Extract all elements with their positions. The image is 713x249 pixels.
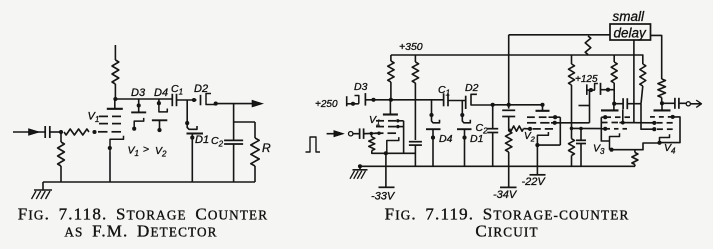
svg-text:D2: D2 (465, 82, 479, 94)
input: pulse symbol Fig 7.119 (306, 137, 321, 152)
wire: cap tap line to V3 grid bracket (570, 127, 602, 131)
label D4 Fig 7.118 (154, 87, 168, 99)
label D3 Fig 7.118 (131, 87, 146, 99)
label +350 (399, 41, 423, 53)
label +250 (315, 99, 338, 110)
wire: D1 branch from coupling wire Fig 7.118 (185, 100, 189, 125)
terminal: +125 supply bar (586, 84, 588, 95)
wire: V4 plate to output cap (662, 102, 675, 104)
capacitor: output coupling cap (675, 98, 679, 109)
terminal: input open circle Fig 7.119 (349, 132, 360, 136)
wire: V3 grid bracket to cathode (601, 117, 609, 141)
label V1 Fig 7.119 (369, 114, 380, 128)
tube V1 grids Fig 7.119 (375, 121, 396, 133)
capacitor C1 Fig 7.119 (444, 93, 448, 106)
svg-text:D1: D1 (195, 134, 209, 146)
wire: V3 grid2 line to V4 grid2 (619, 121, 656, 125)
wire: V4 grid node down to grid3 (641, 104, 656, 132)
node: V1 cathode dot Fig 7.118 (108, 146, 112, 150)
arrowhead: input arrow Fig 7.118 (29, 129, 40, 136)
wire: V2 cathode to -22V (536, 145, 538, 175)
wire: D3 plate to top wire A (365, 98, 443, 102)
node: V3 plate node dot (612, 102, 616, 106)
label C2 Fig 7.118 (211, 135, 224, 149)
label -34V (493, 189, 518, 201)
node: output junction dot Fig 7.118 (214, 102, 218, 106)
resistor: series grid resistor Fig 7.118 (64, 129, 89, 135)
tube V1 grids Fig 7.118 (98, 116, 121, 131)
node: V4 cathode dot (657, 141, 661, 145)
node: plate supply junction Fig 7.118 (113, 97, 117, 101)
label D1 Fig 7.118 (195, 134, 209, 146)
arrowhead: output arrow open (691, 100, 702, 107)
label -22V (522, 176, 547, 188)
label +125 (575, 74, 598, 85)
diode D2 Fig 7.118 (201, 94, 216, 106)
wire: plate line D2 to V2 (493, 104, 543, 106)
node: V1 cathode junction dot (384, 151, 388, 155)
diode D1 Fig 7.118 (187, 123, 204, 182)
svg-text:delay: delay (614, 26, 648, 41)
capacitor: input coupling cap Fig 7.118 (45, 126, 61, 138)
wire: V2 cathode to grid1 tie corner (537, 144, 560, 146)
svg-text:+350: +350 (399, 41, 423, 53)
node: V2 grid3 dot (528, 127, 532, 131)
diode D2 Fig 7.119 (466, 94, 493, 109)
label V4 (664, 142, 676, 156)
label D4 Fig 7.119 (439, 133, 453, 145)
label D2 Fig 7.118 (194, 83, 208, 95)
svg-text:AS F.M. DETECTOR: AS F.M. DETECTOR (64, 221, 217, 240)
capacitor C1 Fig 7.118 (172, 94, 176, 106)
resistor: bias divider upper Fig 7.119 (569, 55, 575, 128)
tube V2 plate (536, 105, 550, 111)
wire: cathode bus V3 to V4 (610, 143, 660, 150)
capacitor C2 Fig 7.119 (487, 105, 498, 167)
resistor: grid leak resistor Fig 7.119 (369, 132, 386, 154)
wire: cathode line to screen bypass (386, 152, 416, 154)
svg-text:D3: D3 (354, 81, 368, 93)
svg-text:FIG. 7.119. STORAGE-COUNTER: FIG. 7.119. STORAGE-COUNTER (385, 204, 630, 223)
tube V4 grids (650, 117, 673, 129)
ground: Fig 7.118 (32, 182, 53, 199)
resistor: V4 grid resistor from rail (640, 55, 646, 104)
tube V1 plate Fig 7.118 (107, 99, 123, 109)
svg-text:D4: D4 (439, 133, 453, 145)
wire: V4 grid1 to cathode tie (661, 117, 680, 143)
wire: C1 to D2 Fig 7.118 (177, 98, 197, 102)
caption Fig 7.118 line 2 (64, 221, 217, 240)
tube V1 plate Fig 7.119 (383, 100, 398, 115)
wire: V2 grid1 to divider (549, 115, 561, 145)
wire: delay box right output (651, 35, 662, 79)
node: V4 plate node dot (660, 101, 664, 105)
diode D4 Fig 7.119 (426, 100, 441, 167)
box: delay (610, 24, 651, 41)
wire: V3 plate to coupling cap (614, 103, 623, 105)
wire: cathode down to -33V (385, 153, 387, 187)
wire: +350 rail (391, 54, 644, 56)
node: V3 cathode dot (609, 148, 613, 152)
svg-text:small: small (613, 9, 646, 24)
label small (613, 9, 646, 24)
ground: Fig 7.119 (350, 166, 368, 179)
node: grid junction Fig 7.118 (59, 130, 63, 134)
capacitor: screen bypass cap Fig 7.119 (409, 142, 422, 167)
resistor: delay line dropping resistor (585, 36, 591, 55)
capacitor: cross-coupling cap V3-V4 (623, 98, 641, 109)
resistor R Fig 7.118 (251, 122, 259, 182)
svg-text:D4: D4 (154, 87, 168, 99)
wire: V1 screen grids to cathode line (398, 121, 404, 154)
svg-text:>: > (143, 144, 149, 156)
capacitor C2 Fig 7.118 (224, 122, 243, 182)
label V3 (593, 143, 605, 157)
node: V4 grid1 dot (671, 115, 675, 119)
wire: ground bus Fig 7.118 (43, 181, 255, 183)
diode D3 Fig 7.118 (131, 99, 146, 131)
node: V3 grid dots (603, 115, 607, 131)
node: C2 top dot Fig 7.119 (491, 103, 495, 107)
arrowhead: input arrow Fig 7.119 (334, 131, 344, 137)
label D3 Fig 7.119 (354, 81, 368, 93)
node: coupling cap top dot (507, 103, 511, 107)
label C1 Fig 7.119 (438, 84, 450, 98)
terminal: -34V supply bar (500, 186, 517, 188)
label V1 Fig 7.118 (88, 111, 100, 125)
diode D3 Fig 7.119 (347, 93, 366, 106)
resistor: V3 plate load (611, 55, 617, 104)
label -33V (371, 191, 396, 203)
wire: delay box output down to V3 grid2 line (633, 40, 635, 123)
wire: output to C2/R branch Fig 7.118 (234, 104, 255, 122)
resistor: plate load resistor Fig 7.118 (112, 45, 119, 99)
tube V1 cathode Fig 7.119 (387, 137, 399, 153)
resistor: bias divider lower Fig 7.119 (569, 128, 575, 166)
svg-text:-34V: -34V (493, 189, 518, 201)
tube V3 grids (601, 117, 630, 129)
terminal: -22V supply bar (530, 174, 546, 176)
resistor: divider to -34V (506, 129, 512, 188)
diode D4 Fig 7.118 (152, 99, 167, 132)
wire: V2 grid2 cross-coupling (551, 90, 590, 125)
svg-text:R: R (262, 141, 271, 155)
capacitor: grid coupling cap at V2 (502, 105, 515, 129)
tube V3 plate (601, 104, 619, 111)
tube V2 grids (527, 117, 553, 129)
caption Fig 7.118 line 1 (18, 204, 268, 223)
svg-text:-33V: -33V (371, 191, 396, 203)
wire: C1 to D2 Fig 7.119 (448, 100, 466, 102)
label V1 > V2 Fig 7.118 (128, 144, 168, 159)
wire: feedback riser to delay line (508, 35, 510, 105)
wire: cap left bar to V3 grid2 (621, 109, 625, 124)
resistor: common cathode resistor (632, 150, 638, 167)
node: V2 plate lead dot (540, 103, 544, 107)
wire: top bus Fig 7.118 (115, 98, 172, 100)
wire: input lead Fig 7.119 (327, 133, 337, 135)
capacitor: V3 grid coupling cap (576, 129, 586, 167)
caption Fig 7.119 line 2 (475, 221, 538, 240)
label C2 Fig 7.119 (476, 122, 489, 136)
label V2 (524, 131, 536, 144)
arrowhead: output arrow Fig 7.118 (252, 100, 263, 107)
tube V4 cathode (660, 134, 670, 143)
label D2 Fig 7.119 (465, 82, 479, 94)
svg-text:+250: +250 (315, 99, 338, 110)
node: V1 grid terminal dot Fig 7.118 (92, 130, 96, 134)
svg-text:D1: D1 (470, 133, 483, 145)
label R Fig 7.118 (262, 141, 271, 155)
resistor: input shunt resistor to ground Fig 7.118 (58, 132, 65, 182)
wire: output wire Fig 7.118 (216, 103, 253, 105)
tube V1 cathode Fig 7.118 (110, 136, 124, 182)
label C1 Fig 7.118 (171, 83, 183, 97)
resistor: V4 plate load (658, 79, 666, 103)
wire: delay line to box (509, 34, 610, 36)
capacitor: input coupling cap Fig 7.119 (360, 128, 379, 139)
svg-text:CIRCUIT: CIRCUIT (475, 221, 538, 240)
caption Fig 7.119 line 1 (385, 204, 630, 223)
diode D1 Fig 7.119 (457, 101, 472, 167)
resistor: V2 grid resistor horizontal (510, 126, 529, 131)
svg-text:-22V: -22V (522, 176, 547, 188)
resistor: screen divider R2 Fig 7.119 (412, 55, 418, 140)
node: V2 cathode dot (535, 143, 539, 147)
resistor: V1 plate load R1 Fig 7.119 (388, 55, 394, 100)
label D1 Fig 7.119 (470, 133, 483, 145)
tube V4 plate (654, 103, 671, 110)
node: V1 plate node dot (389, 98, 393, 102)
node: V1 grid row dots Fig 7.119 (377, 119, 399, 135)
tube V3 cathode (610, 133, 620, 149)
terminal: -33V supply bar (379, 186, 395, 188)
tube V2 cathode (537, 132, 548, 145)
wire: input lead Fig 7.118 (13, 131, 45, 133)
wire: ground bus Fig 7.119 (360, 165, 635, 167)
terminal: +250 supply bar (346, 96, 348, 106)
svg-text:D3: D3 (131, 87, 146, 99)
terminal: output open circle (679, 102, 690, 106)
diode: +125 clamp diode (587, 83, 614, 95)
node: ground dot Fig 7.119 (358, 164, 362, 168)
